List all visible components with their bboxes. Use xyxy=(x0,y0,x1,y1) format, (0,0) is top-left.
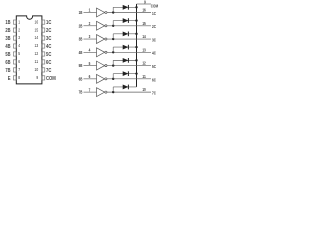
svg-text:1C: 1C xyxy=(152,11,156,16)
pin 4 number xyxy=(18,43,20,48)
svg-text:5C: 5C xyxy=(46,52,51,58)
inverter A7 xyxy=(97,88,107,97)
riser wire 7 xyxy=(112,87,114,92)
diode branch wire 2 xyxy=(113,20,136,22)
pin 13 lead xyxy=(42,44,45,48)
rail junction node 3 xyxy=(135,33,137,35)
rail junction node 1 xyxy=(135,6,137,8)
output label 2C xyxy=(152,24,156,29)
pin 3 number xyxy=(18,35,20,40)
pin 14 lead xyxy=(42,36,45,40)
input label 4B xyxy=(79,50,83,55)
output wire 3 xyxy=(107,38,151,40)
diode D6 xyxy=(123,71,129,76)
svg-text:3: 3 xyxy=(89,34,91,39)
pin 16 number xyxy=(35,19,39,24)
pin 2 label 2B xyxy=(5,28,10,34)
pin 12 label 5C xyxy=(46,52,51,58)
svg-text:15: 15 xyxy=(35,27,39,32)
svg-text:5B: 5B xyxy=(79,63,83,68)
input label 5B xyxy=(79,63,83,68)
svg-text:5: 5 xyxy=(89,61,91,66)
svg-text:3B: 3B xyxy=(79,37,83,42)
output pin number 12 xyxy=(142,61,146,66)
input label 3B xyxy=(79,37,83,42)
input wire 1 xyxy=(84,12,97,14)
input pin number 7 xyxy=(89,87,91,92)
input pin number 4 xyxy=(89,48,91,53)
inverter A3 xyxy=(97,35,107,44)
pin 9 label COM xyxy=(46,76,56,82)
riser wire 4 xyxy=(112,47,114,52)
rail junction node 2 xyxy=(135,19,137,21)
pin 5 number xyxy=(18,51,20,56)
diode branch wire 4 xyxy=(113,46,136,48)
svg-text:2C: 2C xyxy=(46,28,51,34)
input label 1B xyxy=(79,10,83,15)
pin 6 label 6B xyxy=(5,60,10,66)
inverter A1 xyxy=(97,8,107,17)
pin 14 number xyxy=(35,35,39,40)
pin 8 number xyxy=(18,75,20,80)
input wire 7 xyxy=(84,91,97,93)
pin 4 lead xyxy=(13,44,16,48)
riser wire 1 xyxy=(112,7,114,12)
pin 1 number xyxy=(18,19,20,24)
svg-text:6: 6 xyxy=(89,74,91,79)
junction node 2 xyxy=(112,25,114,27)
output pin number 16 xyxy=(142,8,146,13)
svg-text:6C: 6C xyxy=(46,60,51,66)
pin 10 lead xyxy=(42,68,45,72)
svg-text:4C: 4C xyxy=(46,44,51,50)
pin 10 number xyxy=(35,67,39,72)
pin 2 number xyxy=(18,27,20,32)
input wire 5 xyxy=(84,65,97,67)
svg-text:7C: 7C xyxy=(152,91,156,96)
diode D7 xyxy=(123,85,129,90)
pin 9 number xyxy=(36,75,38,80)
pin 16 lead xyxy=(42,20,45,24)
svg-text:2B: 2B xyxy=(79,23,83,28)
svg-text:1B: 1B xyxy=(5,20,10,26)
pin 3 lead xyxy=(13,36,16,40)
output wire 6 xyxy=(107,78,151,80)
input wire 4 xyxy=(84,51,97,53)
pin 8 lead xyxy=(13,76,16,80)
riser wire 5 xyxy=(112,60,114,65)
output label 5C xyxy=(152,64,156,69)
pin 6 lead xyxy=(13,60,16,64)
output label 6C xyxy=(152,77,156,82)
pin 13 label 4C xyxy=(46,44,51,50)
svg-text:16: 16 xyxy=(35,19,39,24)
pin 13 number xyxy=(35,43,39,48)
pin 11 number xyxy=(35,59,39,64)
diode D4 xyxy=(123,45,129,50)
inverter A5 xyxy=(97,61,107,70)
svg-text:4B: 4B xyxy=(5,44,10,50)
output pin number 11 xyxy=(142,74,146,79)
svg-text:14: 14 xyxy=(35,35,39,40)
svg-text:3C: 3C xyxy=(152,37,156,42)
svg-text:9: 9 xyxy=(36,75,38,80)
pin 5 lead xyxy=(13,52,16,56)
svg-text:7B: 7B xyxy=(79,90,83,95)
svg-text:16: 16 xyxy=(142,8,146,13)
output pin number 15 xyxy=(142,21,146,26)
svg-text:3B: 3B xyxy=(5,36,10,42)
pin 12 number xyxy=(35,51,39,56)
svg-text:5C: 5C xyxy=(152,64,156,69)
diode branch wire 1 xyxy=(113,6,136,8)
pin 9 COM wire xyxy=(137,3,152,5)
IC package body DIP-16 with index notch xyxy=(16,16,42,84)
pin 7 number xyxy=(18,67,20,72)
pin 14 label 3C xyxy=(46,36,51,42)
rail junction node 6 xyxy=(135,72,137,74)
pin 4 label 4B xyxy=(5,44,10,50)
node COM label xyxy=(151,3,159,8)
input wire 2 xyxy=(84,25,97,27)
rail junction node 5 xyxy=(135,59,137,61)
svg-text:10: 10 xyxy=(35,67,39,72)
input label 7B xyxy=(79,90,83,95)
output label 4C xyxy=(152,51,156,56)
svg-text:15: 15 xyxy=(142,21,146,26)
input pin number 3 xyxy=(89,34,91,39)
output wire 4 xyxy=(107,51,151,53)
svg-text:1B: 1B xyxy=(79,10,83,15)
inverter A4 xyxy=(97,48,107,57)
output pin number 10 xyxy=(142,87,146,92)
svg-text:COM: COM xyxy=(151,3,159,8)
riser wire 3 xyxy=(112,34,114,39)
pin 3 label 3B xyxy=(5,36,10,42)
COM rail xyxy=(136,4,138,87)
svg-text:7: 7 xyxy=(89,87,91,92)
output pin number 13 xyxy=(142,47,146,52)
svg-text:2B: 2B xyxy=(5,28,10,34)
riser wire 2 xyxy=(112,21,114,26)
svg-text:7B: 7B xyxy=(5,68,10,74)
pin 12 lead xyxy=(42,52,45,56)
svg-text:11: 11 xyxy=(142,74,146,79)
svg-text:1C: 1C xyxy=(46,20,51,26)
input label 2B xyxy=(79,23,83,28)
svg-text:COM: COM xyxy=(46,76,56,82)
svg-text:8: 8 xyxy=(18,75,20,80)
junction node 1 xyxy=(112,11,114,13)
svg-text:6C: 6C xyxy=(152,77,156,82)
svg-text:3C: 3C xyxy=(46,36,51,42)
input pin number 1 xyxy=(89,8,91,13)
svg-text:2: 2 xyxy=(18,27,20,32)
diode D1 xyxy=(123,5,129,10)
diode D2 xyxy=(123,18,129,23)
pin 2 lead xyxy=(13,28,16,32)
svg-text:7: 7 xyxy=(18,67,20,72)
junction node 5 xyxy=(112,64,114,66)
input pin number 6 xyxy=(89,74,91,79)
output pin number 14 xyxy=(142,34,146,39)
diode branch wire 5 xyxy=(113,59,136,61)
svg-text:4: 4 xyxy=(89,48,91,53)
riser wire 6 xyxy=(112,74,114,79)
pin 6 number xyxy=(18,59,20,64)
svg-text:2: 2 xyxy=(89,21,91,26)
pin 10 label 7C xyxy=(46,68,51,74)
svg-text:3: 3 xyxy=(18,35,20,40)
svg-text:13: 13 xyxy=(142,47,146,52)
svg-text:4: 4 xyxy=(18,43,20,48)
diode branch wire 7 xyxy=(113,86,136,88)
input wire 6 xyxy=(84,78,97,80)
svg-text:14: 14 xyxy=(142,34,146,39)
svg-text:5: 5 xyxy=(18,51,20,56)
svg-text:11: 11 xyxy=(35,59,39,64)
pin 5 label 5B xyxy=(5,52,10,58)
input label 6B xyxy=(79,76,83,81)
svg-text:E: E xyxy=(8,76,11,82)
junction node 6 xyxy=(112,78,114,80)
pin 1 lead xyxy=(13,20,16,24)
junction node 7 xyxy=(112,91,114,93)
inverter A2 xyxy=(97,21,107,30)
svg-text:7C: 7C xyxy=(46,68,51,74)
junction node 3 xyxy=(112,38,114,40)
svg-text:13: 13 xyxy=(35,43,39,48)
pin 15 number xyxy=(35,27,39,32)
diode branch wire 6 xyxy=(113,73,136,75)
pin 11 lead xyxy=(42,60,45,64)
output wire 1 xyxy=(107,12,151,14)
svg-text:6B: 6B xyxy=(5,60,10,66)
input wire 3 xyxy=(84,38,97,40)
svg-text:6: 6 xyxy=(18,59,20,64)
output wire 7 xyxy=(107,91,151,93)
pin 9 number xyxy=(144,0,146,4)
diode D5 xyxy=(123,58,129,63)
svg-text:1: 1 xyxy=(18,19,20,24)
inverter A6 xyxy=(97,74,107,83)
diode D3 xyxy=(123,31,129,36)
svg-text:12: 12 xyxy=(35,51,39,56)
pin 1 label 1B xyxy=(5,20,10,26)
output label 3C xyxy=(152,37,156,42)
svg-text:1: 1 xyxy=(89,8,91,13)
output label 1C xyxy=(152,11,156,16)
output wire 5 xyxy=(107,65,151,67)
svg-text:4C: 4C xyxy=(152,51,156,56)
svg-text:10: 10 xyxy=(142,87,146,92)
output label 7C xyxy=(152,91,156,96)
svg-text:4B: 4B xyxy=(79,50,83,55)
pin 11 label 6C xyxy=(46,60,51,66)
svg-text:6B: 6B xyxy=(79,76,83,81)
pin 7 label 7B xyxy=(5,68,10,74)
pin 9 lead xyxy=(42,76,45,80)
diode branch wire 3 xyxy=(113,33,136,35)
output wire 2 xyxy=(107,25,151,27)
pin 8 label E xyxy=(8,76,11,82)
pin 16 label 1C xyxy=(46,20,51,26)
input pin number 5 xyxy=(89,61,91,66)
rail junction node 4 xyxy=(135,46,137,48)
junction node 4 xyxy=(112,51,114,53)
input pin number 2 xyxy=(89,21,91,26)
pin 7 lead xyxy=(13,68,16,72)
svg-text:2C: 2C xyxy=(152,24,156,29)
svg-text:5B: 5B xyxy=(5,52,10,58)
svg-text:12: 12 xyxy=(142,61,146,66)
pin 15 lead xyxy=(42,28,45,32)
pin 15 label 2C xyxy=(46,28,51,34)
